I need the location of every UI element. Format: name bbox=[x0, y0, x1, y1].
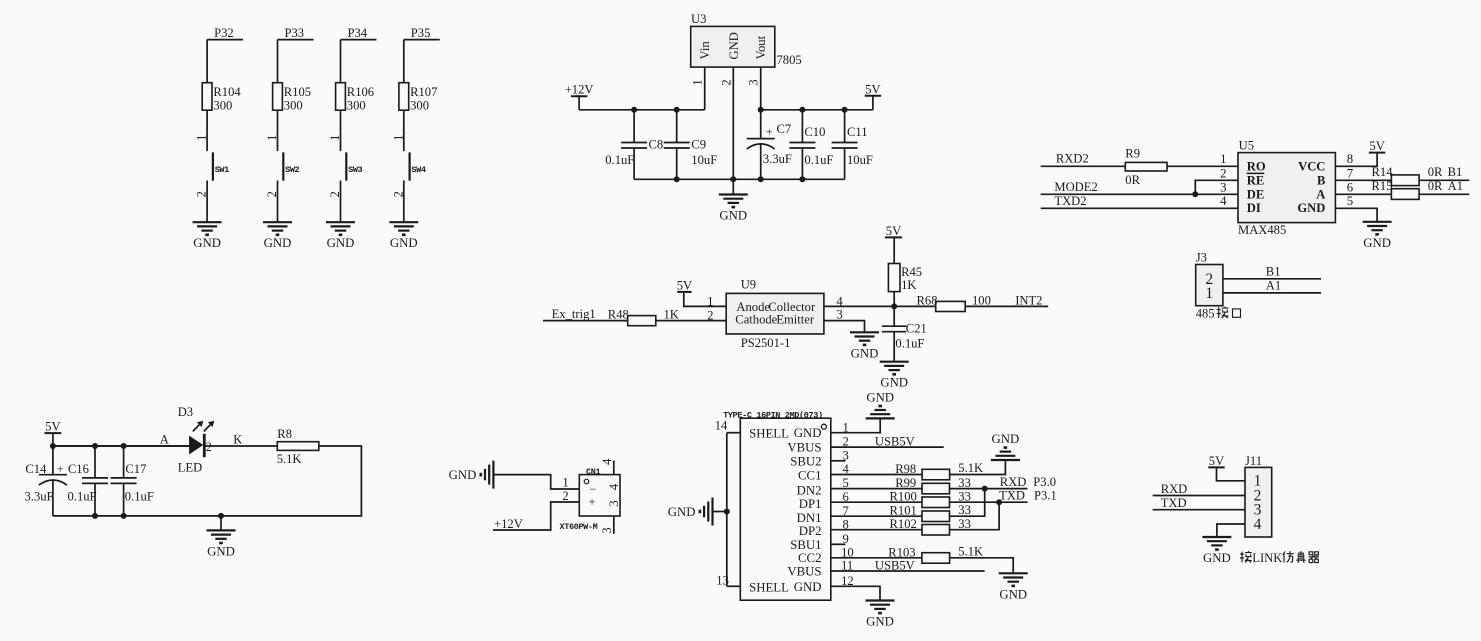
regulator U3 designator bbox=[691, 12, 706, 26]
wire B to R14 bbox=[1335, 179, 1391, 181]
capacitor C7 3.3uF polarized bbox=[747, 110, 792, 180]
svg-text:J11: J11 bbox=[1245, 454, 1262, 468]
svg-text:GND: GND bbox=[794, 580, 822, 594]
svg-text:2: 2 bbox=[206, 440, 212, 454]
net label RXD J11 bbox=[1161, 482, 1188, 496]
wire 5V to R45 bbox=[893, 237, 895, 263]
pin1 indicator circle bbox=[821, 424, 826, 429]
svg-text:B1: B1 bbox=[1266, 265, 1281, 279]
wire RXD2 bbox=[1041, 165, 1126, 167]
pin number 5 TYPE-C bbox=[843, 476, 849, 490]
svg-text:3: 3 bbox=[600, 527, 614, 533]
svg-text:+: + bbox=[57, 462, 64, 476]
pin 4 of U5 bbox=[1220, 194, 1227, 208]
svg-text:DE: DE bbox=[1247, 187, 1265, 201]
wire pin6 to R100 bbox=[831, 501, 922, 503]
svg-text:GND: GND bbox=[449, 468, 477, 482]
svg-text:GND: GND bbox=[866, 391, 894, 405]
resistor R107 300 bbox=[399, 83, 437, 113]
pin 3 of U5 bbox=[1220, 180, 1226, 194]
svg-text:2: 2 bbox=[328, 191, 342, 197]
pin name DI bbox=[1247, 201, 1261, 215]
svg-text:GND: GND bbox=[207, 544, 235, 558]
svg-text:CC2: CC2 bbox=[798, 551, 821, 565]
svg-text:C9: C9 bbox=[691, 137, 706, 151]
wire B1 bbox=[1223, 265, 1321, 279]
svg-text:U9: U9 bbox=[741, 277, 756, 291]
power 5V U9 bbox=[677, 278, 692, 292]
svg-text:8: 8 bbox=[1347, 152, 1353, 166]
wire pin1 to GND bbox=[831, 418, 880, 432]
junction C8 top bbox=[631, 107, 637, 113]
IC U9 designator bbox=[741, 277, 756, 291]
wire SW3 to GND bbox=[340, 181, 342, 223]
resistor R9 0R bbox=[1125, 147, 1167, 188]
CN1 minus bbox=[590, 482, 597, 496]
junction INT2 node bbox=[891, 303, 897, 309]
wire TXD2 bbox=[1041, 207, 1238, 209]
wire anode bbox=[53, 445, 189, 447]
svg-text:RO: RO bbox=[1247, 160, 1266, 174]
svg-text:6: 6 bbox=[1347, 180, 1354, 194]
ground U5 bbox=[1363, 222, 1392, 250]
pin 3 of U9 bbox=[836, 308, 842, 322]
pin number 6 TYPE-C bbox=[843, 490, 849, 504]
wire RXD J11 bbox=[1153, 495, 1245, 497]
svg-text:J3: J3 bbox=[1196, 251, 1207, 265]
CN1 inner pin 3 bbox=[607, 500, 621, 506]
regulator U3 7805 body bbox=[691, 26, 775, 67]
svg-text:−: − bbox=[590, 482, 597, 496]
resistor R102 33 bbox=[890, 517, 971, 535]
net label P32 bbox=[207, 26, 243, 40]
pin 2 of SW3 bbox=[328, 191, 342, 197]
switch SW1 bbox=[213, 152, 229, 180]
svg-text:1K: 1K bbox=[664, 308, 679, 322]
svg-text:+12V: +12V bbox=[565, 83, 594, 97]
svg-text:SW3: SW3 bbox=[348, 165, 362, 175]
wire pin7 to R101 bbox=[831, 515, 922, 517]
svg-text:2: 2 bbox=[391, 191, 405, 197]
wire GND to pin1 bbox=[493, 475, 579, 489]
pin name CC2 row bbox=[798, 551, 821, 565]
svg-text:R15: R15 bbox=[1372, 179, 1393, 193]
svg-text:R98: R98 bbox=[895, 462, 916, 476]
svg-text:DI: DI bbox=[1247, 201, 1261, 215]
svg-text:R102: R102 bbox=[890, 517, 917, 531]
switch SW2 bbox=[283, 152, 299, 180]
svg-text:4: 4 bbox=[600, 458, 614, 465]
pin number 4 TYPE-C bbox=[843, 462, 850, 476]
svg-text:R8: R8 bbox=[277, 427, 292, 441]
svg-text:R101: R101 bbox=[890, 504, 917, 518]
wire VCC to 5V bbox=[1335, 153, 1377, 167]
pin name GND row bbox=[794, 580, 822, 594]
svg-text:4: 4 bbox=[1254, 516, 1262, 533]
pin number 3 TYPE-C bbox=[843, 448, 849, 462]
svg-text:R48: R48 bbox=[608, 308, 629, 322]
LED D3 pin 2 bbox=[206, 440, 212, 454]
svg-text:0R: 0R bbox=[1428, 179, 1443, 193]
ground above R98 bbox=[991, 432, 1020, 460]
LED D3 designator bbox=[178, 405, 193, 419]
svg-text:2: 2 bbox=[719, 79, 733, 85]
svg-text:XT60PW-M: XT60PW-M bbox=[560, 522, 598, 532]
svg-text:Vin: Vin bbox=[698, 41, 712, 60]
label 485 interface bbox=[1196, 306, 1241, 320]
wire R103 to GND bbox=[950, 558, 1014, 574]
pin 1 of CN1 bbox=[562, 476, 568, 490]
pin 2 of U5 bbox=[1220, 166, 1226, 180]
svg-text:7: 7 bbox=[1347, 166, 1354, 180]
wire pin4 to junction bbox=[824, 305, 894, 307]
capacitor C17 0.1uF bbox=[111, 446, 154, 516]
net label RXD bbox=[1000, 475, 1056, 489]
svg-text:P33: P33 bbox=[285, 26, 305, 40]
svg-text:GND: GND bbox=[1203, 551, 1231, 565]
svg-text:GND: GND bbox=[193, 236, 221, 250]
pin name SHELL bottom bbox=[749, 581, 789, 595]
junction C10 bottom bbox=[799, 176, 805, 182]
svg-text:MAX485: MAX485 bbox=[1238, 223, 1286, 237]
pin 7 of U5 bbox=[1347, 166, 1354, 180]
junction C9 bottom bbox=[674, 176, 680, 182]
svg-text:MODE2: MODE2 bbox=[1054, 180, 1097, 194]
resistor R45 1K bbox=[888, 264, 922, 292]
wire GND U5 bbox=[1335, 208, 1377, 222]
svg-text:USB5V: USB5V bbox=[875, 434, 915, 448]
connector CN1 body bbox=[579, 475, 620, 516]
capacitor C21 0.1uF bbox=[882, 306, 927, 361]
svg-text:R106: R106 bbox=[347, 85, 374, 99]
svg-text:+: + bbox=[589, 495, 596, 509]
svg-text:1K: 1K bbox=[901, 278, 916, 292]
svg-text:3.3uF: 3.3uF bbox=[763, 152, 792, 166]
LED D3 arrows bbox=[193, 421, 215, 432]
svg-text:GND: GND bbox=[327, 236, 355, 250]
svg-text:RXD: RXD bbox=[1161, 482, 1188, 496]
wire 5V to pin1 bbox=[684, 292, 726, 307]
pin 3 of J11 bbox=[1254, 502, 1262, 519]
svg-text:R45: R45 bbox=[901, 265, 922, 279]
junction C11 top bbox=[842, 107, 848, 113]
power 5V J11 bbox=[1208, 454, 1224, 468]
junction C17 bottom bbox=[121, 513, 127, 519]
pin name VBUS row bbox=[787, 565, 821, 579]
junction GND LED bbox=[218, 513, 224, 519]
wire MODE2 to RE bbox=[1195, 180, 1238, 194]
wire +12V to pin2 bbox=[493, 502, 579, 530]
wire R107 to SW4 bbox=[403, 110, 405, 151]
pin name DE bbox=[1247, 187, 1265, 201]
pin 1 of SW3 bbox=[328, 135, 342, 141]
svg-text:GND: GND bbox=[390, 236, 418, 250]
IC U5 MAX485 body bbox=[1238, 153, 1335, 223]
wire R9 to pin1 bbox=[1167, 165, 1238, 167]
svg-text:TXD: TXD bbox=[1161, 496, 1187, 510]
pin number 8 TYPE-C bbox=[843, 517, 849, 531]
svg-text:SW4: SW4 bbox=[411, 165, 425, 175]
pin 2 of SW2 bbox=[265, 191, 279, 197]
svg-text:3: 3 bbox=[836, 308, 842, 322]
junction C16 top bbox=[92, 443, 98, 449]
svg-text:R99: R99 bbox=[895, 476, 916, 490]
svg-text:INT2: INT2 bbox=[1015, 294, 1042, 308]
svg-text:4: 4 bbox=[1220, 194, 1227, 208]
wire R8 return bbox=[53, 446, 362, 516]
connector J3 designator bbox=[1196, 251, 1207, 265]
pin name VBUS row bbox=[787, 441, 821, 455]
net label +12V CN1 bbox=[494, 517, 523, 531]
wire R106 to SW3 bbox=[340, 110, 342, 151]
net label TXD2 bbox=[1054, 194, 1086, 208]
pin name DN1 row bbox=[797, 511, 822, 525]
resistor R68 100 bbox=[917, 294, 991, 312]
svg-text:PS2501-1: PS2501-1 bbox=[741, 336, 791, 350]
svg-text:P35: P35 bbox=[411, 26, 431, 40]
svg-text:5V: 5V bbox=[1209, 454, 1224, 468]
svg-text:485: 485 bbox=[1196, 306, 1215, 320]
resistor R8 5.1K bbox=[277, 427, 319, 466]
capacitor C14 3.3uF polarized bbox=[25, 446, 67, 516]
pin 2 of CN1 bbox=[562, 489, 568, 503]
pin 5 of U5 bbox=[1347, 194, 1353, 208]
ground P33 column bbox=[263, 222, 292, 250]
svg-text:300: 300 bbox=[347, 98, 366, 112]
pin number 1 TYPE-C bbox=[843, 420, 849, 434]
label TYPE-C 16PIN 2MD(073) bbox=[723, 410, 823, 420]
pin 2 of J3 bbox=[1205, 271, 1213, 288]
svg-text:GND: GND bbox=[866, 615, 894, 629]
svg-text:R100: R100 bbox=[890, 490, 917, 504]
svg-text:1: 1 bbox=[391, 135, 405, 141]
net label P34 bbox=[341, 26, 377, 40]
capacitor C16 0.1uF bbox=[68, 446, 109, 516]
pin 4 of CN1 bbox=[600, 458, 614, 475]
wire P32 to R104 bbox=[206, 40, 208, 83]
svg-text:2: 2 bbox=[562, 489, 568, 503]
LED D3 diode bbox=[189, 434, 204, 457]
svg-text:C10: C10 bbox=[804, 125, 825, 139]
IC U9 PS2501 body bbox=[726, 293, 824, 334]
svg-text:B: B bbox=[1317, 173, 1326, 187]
power 5V U3 out bbox=[865, 82, 881, 110]
svg-text:300: 300 bbox=[410, 98, 429, 112]
svg-text:P3.1: P3.1 bbox=[1034, 489, 1057, 503]
svg-text:P3.0: P3.0 bbox=[1033, 475, 1056, 489]
ground shell bbox=[668, 498, 713, 526]
wire R99 to RXD bbox=[950, 488, 1028, 490]
pin 4 of J11 bbox=[1254, 516, 1262, 533]
wire SW2 to GND bbox=[277, 181, 279, 223]
junction C7 bottom bbox=[758, 176, 764, 182]
svg-text:C8: C8 bbox=[649, 137, 664, 151]
pin number 10 TYPE-C bbox=[841, 545, 854, 559]
svg-text:R68: R68 bbox=[917, 294, 938, 308]
svg-text:5.1K: 5.1K bbox=[958, 461, 983, 475]
wire cathode to R8 bbox=[204, 445, 277, 447]
pin 6 of U5 bbox=[1347, 180, 1354, 194]
pin name B bbox=[1317, 173, 1326, 187]
wire R14 to B1 bbox=[1419, 165, 1469, 180]
ground P34 column bbox=[326, 222, 355, 250]
resistor R14 0R bbox=[1372, 165, 1443, 186]
svg-text:LINK: LINK bbox=[1252, 551, 1282, 565]
svg-text:D3: D3 bbox=[178, 405, 193, 419]
svg-text:SHELL: SHELL bbox=[749, 581, 789, 595]
svg-text:VBUS: VBUS bbox=[787, 565, 821, 579]
wire pin3 to GND bbox=[824, 321, 865, 333]
pin name CC1 row bbox=[798, 469, 821, 483]
wire LED top rail bbox=[53, 445, 189, 447]
ground U3 bbox=[719, 195, 748, 223]
wire pin11 USB5V bbox=[831, 558, 985, 572]
junction C14 top bbox=[50, 443, 56, 449]
pin name GND row bbox=[794, 426, 822, 440]
pin number 11 TYPE-C bbox=[841, 559, 853, 573]
connector J11 designator bbox=[1245, 454, 1262, 468]
ground U9 pin3 bbox=[850, 332, 879, 360]
svg-text:R104: R104 bbox=[213, 85, 241, 99]
ground below pin12 bbox=[866, 601, 895, 629]
ground C21 bbox=[880, 362, 909, 390]
svg-text:R103: R103 bbox=[888, 545, 915, 559]
wire A1 bbox=[1223, 279, 1321, 293]
svg-text:USB5V: USB5V bbox=[875, 558, 915, 572]
svg-text:1: 1 bbox=[707, 294, 713, 308]
capacitor C11 10uF bbox=[832, 110, 873, 180]
svg-text:0.1uF: 0.1uF bbox=[125, 489, 154, 503]
svg-text:R105: R105 bbox=[284, 85, 311, 99]
svg-text:3: 3 bbox=[747, 79, 761, 85]
label MAX485 bbox=[1238, 223, 1286, 237]
wire TXD J11 bbox=[1153, 509, 1245, 511]
junction RXD bbox=[982, 486, 988, 492]
svg-text:LED: LED bbox=[178, 461, 202, 475]
pin 1 of U3 bbox=[691, 67, 705, 110]
svg-text:U3: U3 bbox=[691, 12, 706, 26]
pin number 9 TYPE-C bbox=[843, 532, 849, 546]
svg-text:SW2: SW2 bbox=[285, 165, 299, 175]
svg-text:R107: R107 bbox=[410, 85, 437, 99]
wire pin4 to R98 bbox=[831, 474, 922, 476]
svg-text:1: 1 bbox=[265, 135, 279, 141]
wire R48 to pin2 bbox=[656, 320, 726, 322]
ground P32 column bbox=[193, 222, 222, 250]
wire junction to R68 bbox=[894, 305, 936, 307]
svg-text:GND: GND bbox=[264, 236, 292, 250]
wire 5V stem bbox=[52, 433, 54, 446]
pin 1 of J3 bbox=[1205, 285, 1213, 302]
capacitor C9 10uF bbox=[664, 110, 718, 180]
wire pin9 stub bbox=[831, 543, 846, 545]
pin name A bbox=[1316, 187, 1325, 201]
power 5V R45 bbox=[885, 224, 902, 238]
svg-text:GND: GND bbox=[999, 587, 1027, 601]
wire R101 to RXD node bbox=[950, 489, 985, 517]
pin 2 of SW4 bbox=[391, 191, 405, 197]
ground below R103 bbox=[999, 573, 1028, 601]
resistor R98 5.1K bbox=[895, 461, 983, 480]
wire Ex_trig1 bbox=[543, 320, 628, 322]
svg-text:10uF: 10uF bbox=[847, 153, 873, 167]
svg-text:33: 33 bbox=[958, 503, 971, 517]
net label P35 bbox=[404, 26, 440, 40]
ground J11 bbox=[1202, 537, 1231, 550]
svg-text:33: 33 bbox=[958, 517, 971, 531]
wire shell bbox=[726, 433, 728, 587]
wire pin4 to GND J11 bbox=[1217, 524, 1245, 537]
svg-text:GND: GND bbox=[880, 376, 908, 390]
net label P33 bbox=[278, 26, 314, 40]
label PS2501-1 bbox=[741, 336, 791, 350]
power 5V LED bbox=[45, 420, 62, 434]
wire pin2 USB5V bbox=[831, 434, 944, 448]
pin 3 of CN1 bbox=[600, 516, 614, 534]
CN1 inner pin 4 bbox=[607, 483, 621, 490]
svg-text:5V: 5V bbox=[677, 278, 692, 292]
pin name RE bbox=[1247, 173, 1265, 187]
ground LED bbox=[207, 530, 236, 558]
junction C17 top bbox=[121, 443, 127, 449]
pin name DP2 row bbox=[799, 524, 822, 538]
svg-text:0.1uF: 0.1uF bbox=[68, 489, 97, 503]
svg-text:3.3uF: 3.3uF bbox=[25, 489, 54, 503]
svg-text:TXD2: TXD2 bbox=[1054, 194, 1086, 208]
svg-text:TXD: TXD bbox=[999, 489, 1025, 503]
svg-text:GND: GND bbox=[1363, 236, 1391, 250]
wire bottom rail left bbox=[634, 178, 845, 180]
svg-text:GND: GND bbox=[992, 432, 1020, 446]
svg-text:5V: 5V bbox=[1369, 139, 1384, 153]
svg-text:0R: 0R bbox=[1125, 173, 1140, 187]
net label A anode bbox=[160, 432, 169, 446]
pin 1 of U5 bbox=[1220, 152, 1226, 166]
pin name SBU2 row bbox=[790, 454, 821, 468]
svg-text:C11: C11 bbox=[847, 125, 868, 139]
resistor R105 300 bbox=[273, 83, 311, 113]
junction C16 bottom bbox=[92, 513, 98, 519]
CN1 plus bbox=[589, 495, 596, 509]
capacitor C8 0.1uF bbox=[605, 110, 663, 180]
svg-text:1: 1 bbox=[1205, 285, 1213, 302]
svg-text:7805: 7805 bbox=[777, 53, 802, 67]
svg-text:0.1uF: 0.1uF bbox=[804, 153, 833, 167]
wire SW4 to GND bbox=[403, 181, 405, 223]
pin 2 of U9 bbox=[707, 309, 713, 323]
junction shell bbox=[724, 509, 730, 515]
pin 8 of U5 bbox=[1347, 152, 1353, 166]
svg-text:0.1uF: 0.1uF bbox=[895, 336, 924, 350]
svg-text:5: 5 bbox=[1347, 194, 1353, 208]
svg-text:C21: C21 bbox=[906, 321, 927, 335]
svg-text:GND: GND bbox=[727, 32, 741, 59]
CN1 pin1 circle bbox=[584, 479, 589, 484]
wire 5V to pin1 J11 bbox=[1217, 467, 1246, 480]
junction Vout bbox=[758, 107, 764, 113]
svg-text:0.1uF: 0.1uF bbox=[605, 153, 634, 167]
svg-text:R14: R14 bbox=[1372, 165, 1394, 179]
ground CN1 bbox=[449, 461, 494, 489]
wire P35 to R107 bbox=[403, 40, 405, 83]
pin name DN2 row bbox=[797, 483, 822, 497]
pin name DP1 row bbox=[799, 497, 822, 511]
label LINK emulator bbox=[1240, 551, 1319, 565]
wire 5V rail bbox=[761, 109, 873, 111]
pin 4 of U9 bbox=[836, 294, 843, 308]
svg-text:5V: 5V bbox=[45, 420, 60, 434]
pin name RO bbox=[1247, 160, 1266, 174]
